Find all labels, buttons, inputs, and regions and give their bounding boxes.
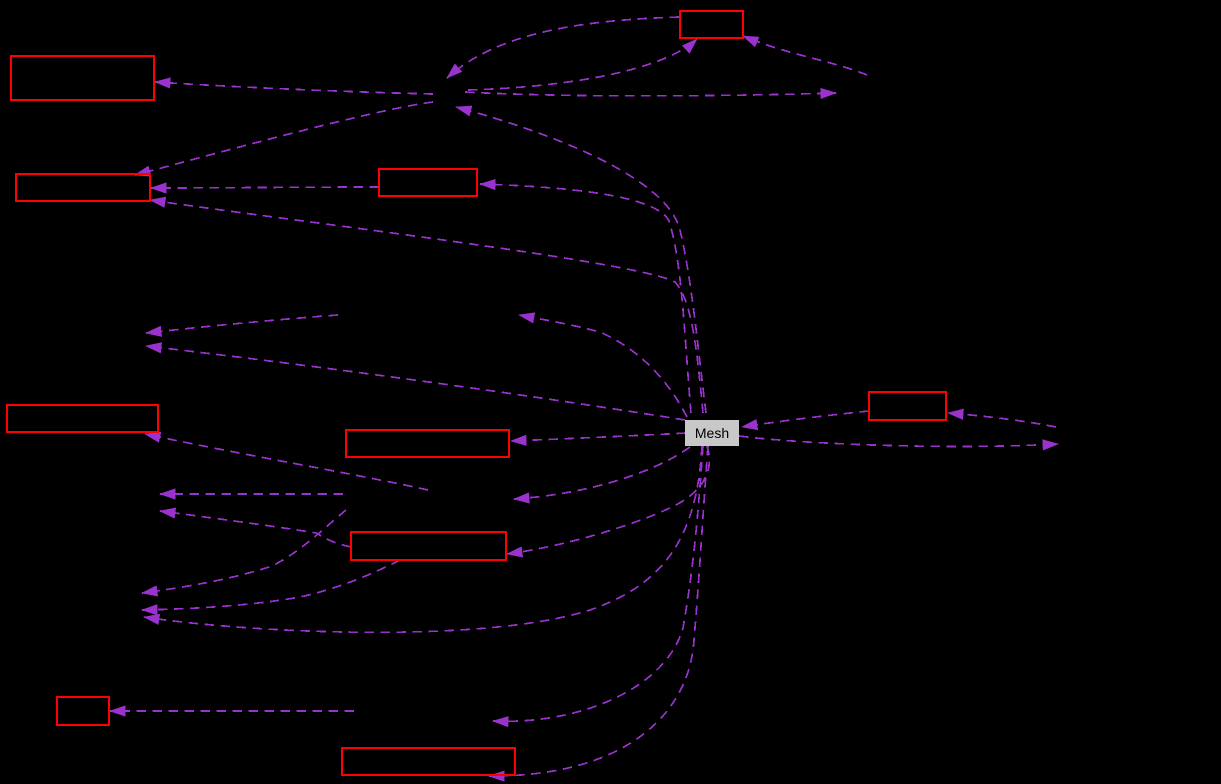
- edge L2->leftnode3: [142, 510, 346, 593]
- edge L2->B4: [145, 434, 428, 490]
- edge B7->Mesh: [742, 411, 869, 427]
- edge Mesh->FR: [739, 436, 1058, 446]
- edge Mesh->Nbottom: [493, 446, 703, 721]
- node B3 mid-top: [379, 169, 477, 196]
- node B6 center2: [351, 532, 506, 560]
- edge Mesh->B3: [480, 184, 691, 413]
- edge B6->leftnode3: [142, 560, 400, 610]
- node B2 left: [16, 174, 150, 201]
- edge B->topbox: [743, 36, 867, 75]
- node Mesh: [685, 420, 739, 446]
- node B9 bottom: [342, 748, 515, 775]
- edge Mesh->L2: [514, 447, 690, 499]
- node B8 bottom-small: [57, 697, 109, 725]
- edge Nbottom->B8: [110, 710, 354, 712]
- edge FR->B7: [948, 413, 1056, 427]
- edge Mesh->B2: [150, 200, 703, 413]
- node B7 right: [869, 392, 946, 420]
- edge A->B2: [135, 102, 433, 175]
- node B5 center: [346, 430, 509, 457]
- edge Mesh->B6: [507, 446, 709, 554]
- edge Mesh->B5: [511, 433, 686, 441]
- node B1 top-left: [11, 56, 154, 100]
- edge B3->B2: [151, 187, 379, 188]
- edge Mesh->B9: [489, 446, 708, 776]
- edge topbox->A: [447, 17, 679, 78]
- node B10 top: [680, 11, 743, 38]
- edge A->B1: [155, 82, 433, 94]
- node B4 left-mid: [7, 405, 158, 432]
- edge Mesh->N1: [519, 315, 687, 417]
- edge L2->leftnode2: [160, 493, 343, 495]
- svg-text:Mesh: Mesh: [695, 425, 729, 441]
- edge A->topbox: [468, 39, 697, 90]
- edge N1->leftnode1: [146, 315, 338, 333]
- edge B6->leftnode2: [160, 511, 351, 547]
- edge Mesh->leftnode1: [146, 346, 685, 420]
- edge A->B: [465, 92, 836, 96]
- edge Mesh->A: [456, 107, 706, 413]
- edge Mesh->leftnode3: [144, 446, 702, 632]
